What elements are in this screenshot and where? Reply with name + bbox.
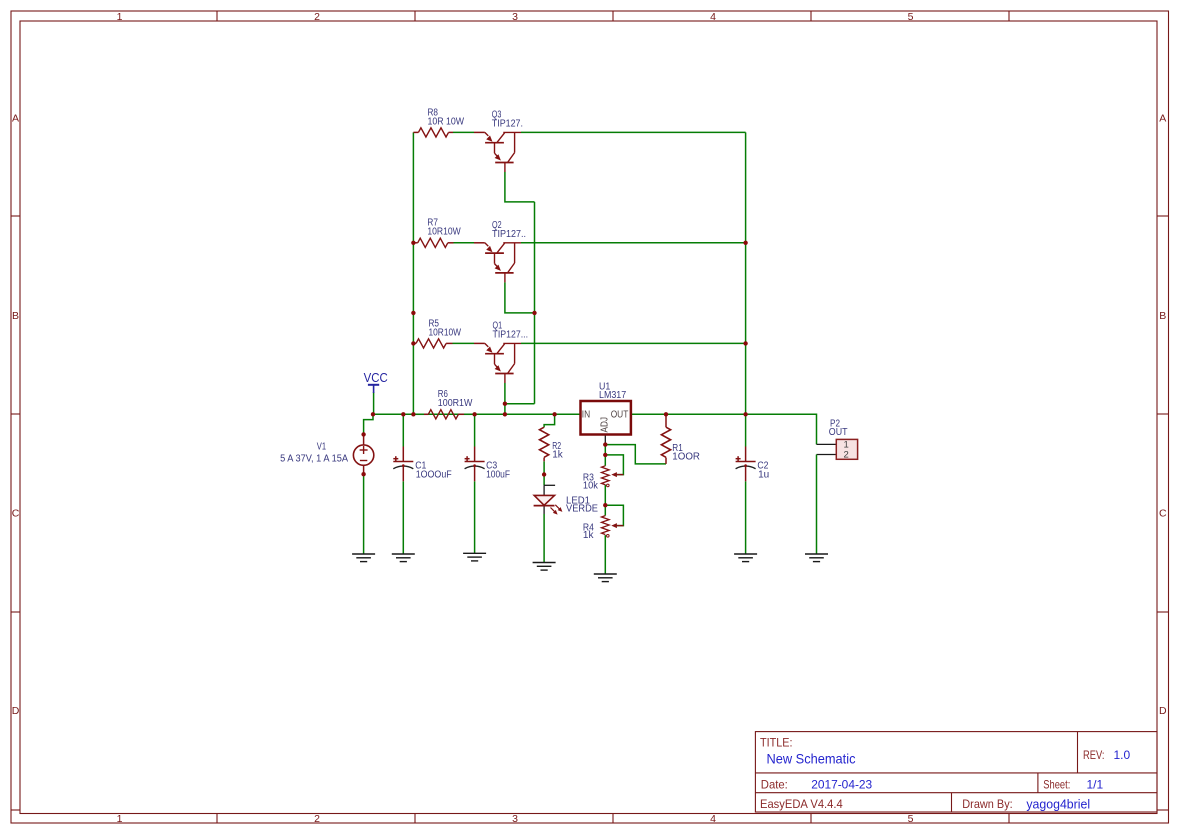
junction at 504.9,414.3	[503, 412, 507, 416]
ruler tick bottom x=811	[810, 814, 812, 824]
junction at 544.1,474.5	[542, 472, 546, 476]
wire R8 row green segment	[453, 131, 474, 133]
wire C2 bottom to ground	[745, 481, 747, 554]
svg-text:TIP127..: TIP127..	[492, 229, 526, 240]
wire ADJ to R1 bottom	[605, 445, 666, 464]
wire ADJ to R3 top	[604, 455, 606, 466]
wire Q2 emitter rail	[521, 242, 746, 244]
potentiometer R4	[602, 516, 610, 535]
title block row divider 2	[755, 792, 1157, 794]
svg-text:TIP127.: TIP127.	[492, 118, 523, 129]
wire C2 top	[745, 414, 747, 446]
svg-text:OUT: OUT	[611, 409, 629, 421]
ruler tick left y=216	[11, 215, 20, 217]
title block divider DrawnBy	[951, 793, 953, 812]
ruler tick bottom x=415	[414, 814, 416, 824]
junction at 605.3,444.6	[603, 442, 607, 446]
wire R4 top lead	[604, 505, 606, 515]
svg-text:2: 2	[844, 450, 849, 461]
wire Q2 collector jog	[505, 282, 535, 313]
svg-text:Sheet:: Sheet:	[1043, 777, 1070, 791]
ground C2	[734, 553, 757, 555]
svg-text:Date:: Date:	[761, 777, 788, 791]
junction at 554.6,414.3	[552, 412, 556, 416]
junction at 403.3,414.3	[401, 412, 405, 416]
junction at 413.4,312.9	[411, 311, 415, 315]
junction at 605.3,454.9	[603, 453, 607, 457]
wire C1 top	[402, 414, 404, 446]
transistor Q2 TIP127	[485, 243, 489, 247]
svg-text:5: 5	[908, 813, 914, 825]
wire right rail vertical	[745, 132, 747, 414]
ruler tick left y=612	[11, 611, 20, 613]
svg-text:C: C	[12, 508, 20, 520]
resistor R8	[413, 131, 418, 133]
svg-text:D: D	[1159, 705, 1167, 717]
svg-text:3: 3	[512, 813, 518, 825]
junction at 745.6,343.4	[743, 341, 747, 345]
wire Q1 emitter rail	[521, 342, 746, 344]
svg-text:1k: 1k	[583, 530, 595, 541]
LED pin top black	[543, 485, 545, 495]
title block row divider 1	[755, 772, 1157, 774]
transistor Q3 TIP127	[485, 132, 489, 136]
wire Q1 collector down to main rail	[504, 383, 506, 414]
junction at 745.6,242.8	[743, 241, 747, 245]
wire R2 bottom	[543, 461, 545, 474]
title block outline	[755, 732, 1157, 812]
P2 pin1 lead	[817, 443, 837, 445]
wire LED cathode to ground	[543, 514, 545, 563]
svg-text:TIP127...: TIP127...	[493, 329, 529, 340]
svg-text:10R10W: 10R10W	[427, 227, 461, 238]
svg-text:A: A	[12, 113, 19, 125]
power flag VCC	[368, 384, 379, 386]
LED pin stub	[544, 484, 555, 486]
connector P2	[836, 439, 857, 459]
svg-text:Drawn By:: Drawn By:	[962, 797, 1012, 811]
ruler tick top x=811	[810, 11, 812, 21]
ground LED1	[533, 562, 556, 564]
svg-text:1: 1	[117, 813, 123, 825]
svg-text:100R1W: 100R1W	[438, 398, 473, 409]
svg-text:10R10W: 10R10W	[429, 327, 462, 338]
svg-text:1.0: 1.0	[1114, 748, 1131, 762]
svg-text:10k: 10k	[583, 480, 599, 491]
svg-text:EasyEDA V4.4.4: EasyEDA V4.4.4	[760, 797, 843, 811]
wire main rail right part (OUT)	[631, 414, 817, 444]
junction at 534.5,312.9	[532, 311, 536, 315]
wire R3 bottom to R4 top	[604, 485, 606, 506]
wire R3 wiper loop	[605, 455, 623, 475]
resistor R1	[665, 414, 667, 427]
svg-text:1k: 1k	[552, 449, 564, 460]
ground V1	[352, 553, 375, 555]
svg-text:LM317: LM317	[599, 390, 627, 401]
resistor R6	[424, 413, 428, 415]
U1 ADJ pin stub	[604, 435, 606, 445]
resistor R5	[413, 342, 416, 344]
ruler tick left y=414	[11, 413, 20, 415]
wire R8 row red tail	[474, 131, 485, 133]
svg-text:VCC: VCC	[364, 371, 388, 385]
svg-text:New Schematic: New Schematic	[767, 751, 856, 767]
ruler tick top x=217	[216, 11, 218, 21]
svg-text:5 A 37V, 1 A 15A: 5 A 37V, 1 A 15A	[280, 454, 348, 465]
resistor R7	[413, 242, 417, 244]
svg-text:1u: 1u	[758, 470, 769, 481]
ruler tick left y=810	[11, 809, 20, 811]
svg-text:10R 10W: 10R 10W	[428, 116, 465, 127]
ruler tick right y=810	[1157, 809, 1169, 811]
junction at 413.4,414.3	[411, 412, 415, 416]
title block divider Sheet	[1037, 773, 1039, 793]
junction at 745.6,414.3	[743, 412, 747, 416]
svg-text:4: 4	[710, 11, 716, 23]
wire ADJ down segment	[604, 445, 606, 455]
svg-text:B: B	[1159, 310, 1166, 322]
ground P2	[805, 553, 828, 555]
junction at 474.6,414.3	[472, 412, 476, 416]
capacitor C2	[745, 447, 747, 462]
resistor R2	[540, 427, 549, 457]
capacitor C3	[474, 447, 476, 462]
junction at 666,414.3	[664, 412, 668, 416]
wire C3 top	[474, 414, 476, 446]
wire C3 bottom to ground	[474, 481, 476, 553]
wire left bus vertical	[412, 132, 414, 414]
ruler tick bottom x=217	[216, 814, 218, 824]
P2 pin2 lead	[817, 454, 837, 456]
svg-text:2: 2	[314, 11, 320, 23]
svg-text:100uF: 100uF	[486, 470, 510, 481]
wire Q3 collector jog	[505, 172, 535, 202]
junction at 373.0,414.3	[371, 412, 375, 416]
svg-text:C: C	[1159, 508, 1167, 520]
svg-text:4: 4	[710, 813, 716, 825]
wire R2 top jog	[544, 414, 555, 427]
junction at 363.6,434.4	[361, 432, 365, 436]
wire V1 bottom to ground	[363, 474, 365, 554]
svg-text:1/1: 1/1	[1087, 777, 1104, 791]
wire collector bus bottom jog	[505, 403, 535, 405]
svg-text:yagog4briel: yagog4briel	[1026, 798, 1090, 812]
svg-text:REV:: REV:	[1083, 748, 1105, 762]
ground R4	[594, 573, 617, 575]
junction at 605.3,505.2	[603, 503, 607, 507]
wire LED anode segment	[543, 475, 545, 486]
voltage source V1	[363, 434, 365, 445]
svg-text:V1: V1	[317, 442, 327, 453]
ruler tick right y=612	[1157, 611, 1169, 613]
svg-text:5: 5	[908, 11, 914, 23]
wire collector bus vertical x=534.5	[534, 202, 536, 404]
regulator U1 LM317 box	[581, 401, 631, 435]
capacitor C1	[402, 447, 404, 462]
svg-text:TITLE:: TITLE:	[760, 738, 793, 750]
svg-text:1OOR: 1OOR	[672, 451, 700, 462]
wire VCC stem	[373, 392, 375, 414]
ground C1	[392, 553, 415, 555]
ruler tick top x=415	[414, 11, 416, 21]
svg-text:VERDE: VERDE	[566, 503, 598, 514]
svg-text:ADJ: ADJ	[599, 417, 611, 433]
LED LED1	[534, 495, 554, 505]
junction at 363.6,474.2	[361, 472, 365, 476]
svg-text:B: B	[12, 310, 19, 322]
svg-text:3: 3	[512, 11, 518, 23]
junction at 413.4,242.8	[411, 241, 415, 245]
LED pin bottom black	[543, 506, 545, 514]
svg-text:D: D	[12, 705, 20, 717]
transistor Q1 TIP127	[485, 343, 489, 347]
wire R4 wiper loop	[605, 505, 623, 525]
potentiometer R3	[602, 466, 610, 485]
ruler tick right y=216	[1157, 215, 1169, 217]
ground C3	[463, 552, 486, 554]
title block divider REV	[1077, 732, 1079, 773]
ruler tick right y=414	[1157, 413, 1169, 415]
svg-text:1OOOuF: 1OOOuF	[416, 470, 452, 481]
ruler tick bottom x=613	[612, 814, 614, 824]
svg-text:2017-04-23: 2017-04-23	[811, 777, 872, 791]
svg-text:OUT: OUT	[829, 427, 848, 438]
svg-text:1: 1	[117, 11, 123, 23]
wire C1 bottom to ground	[402, 481, 404, 554]
svg-text:IN: IN	[582, 409, 590, 421]
svg-text:2: 2	[314, 813, 320, 825]
junction at 504.9,403.7	[503, 402, 507, 406]
wire main rail left part	[373, 413, 581, 415]
wire V1 top jog	[364, 414, 373, 434]
junction at 413.4,343.4	[411, 341, 415, 345]
wire P2 pin2 to ground	[816, 455, 818, 555]
wire Q3 emitter rail to right rail	[521, 131, 746, 133]
wire R4 bottom to ground	[604, 535, 606, 574]
ruler tick top x=1009	[1008, 11, 1010, 21]
svg-text:A: A	[1159, 113, 1166, 125]
ruler tick top x=613	[612, 11, 614, 21]
ruler tick bottom x=1009	[1008, 814, 1010, 824]
